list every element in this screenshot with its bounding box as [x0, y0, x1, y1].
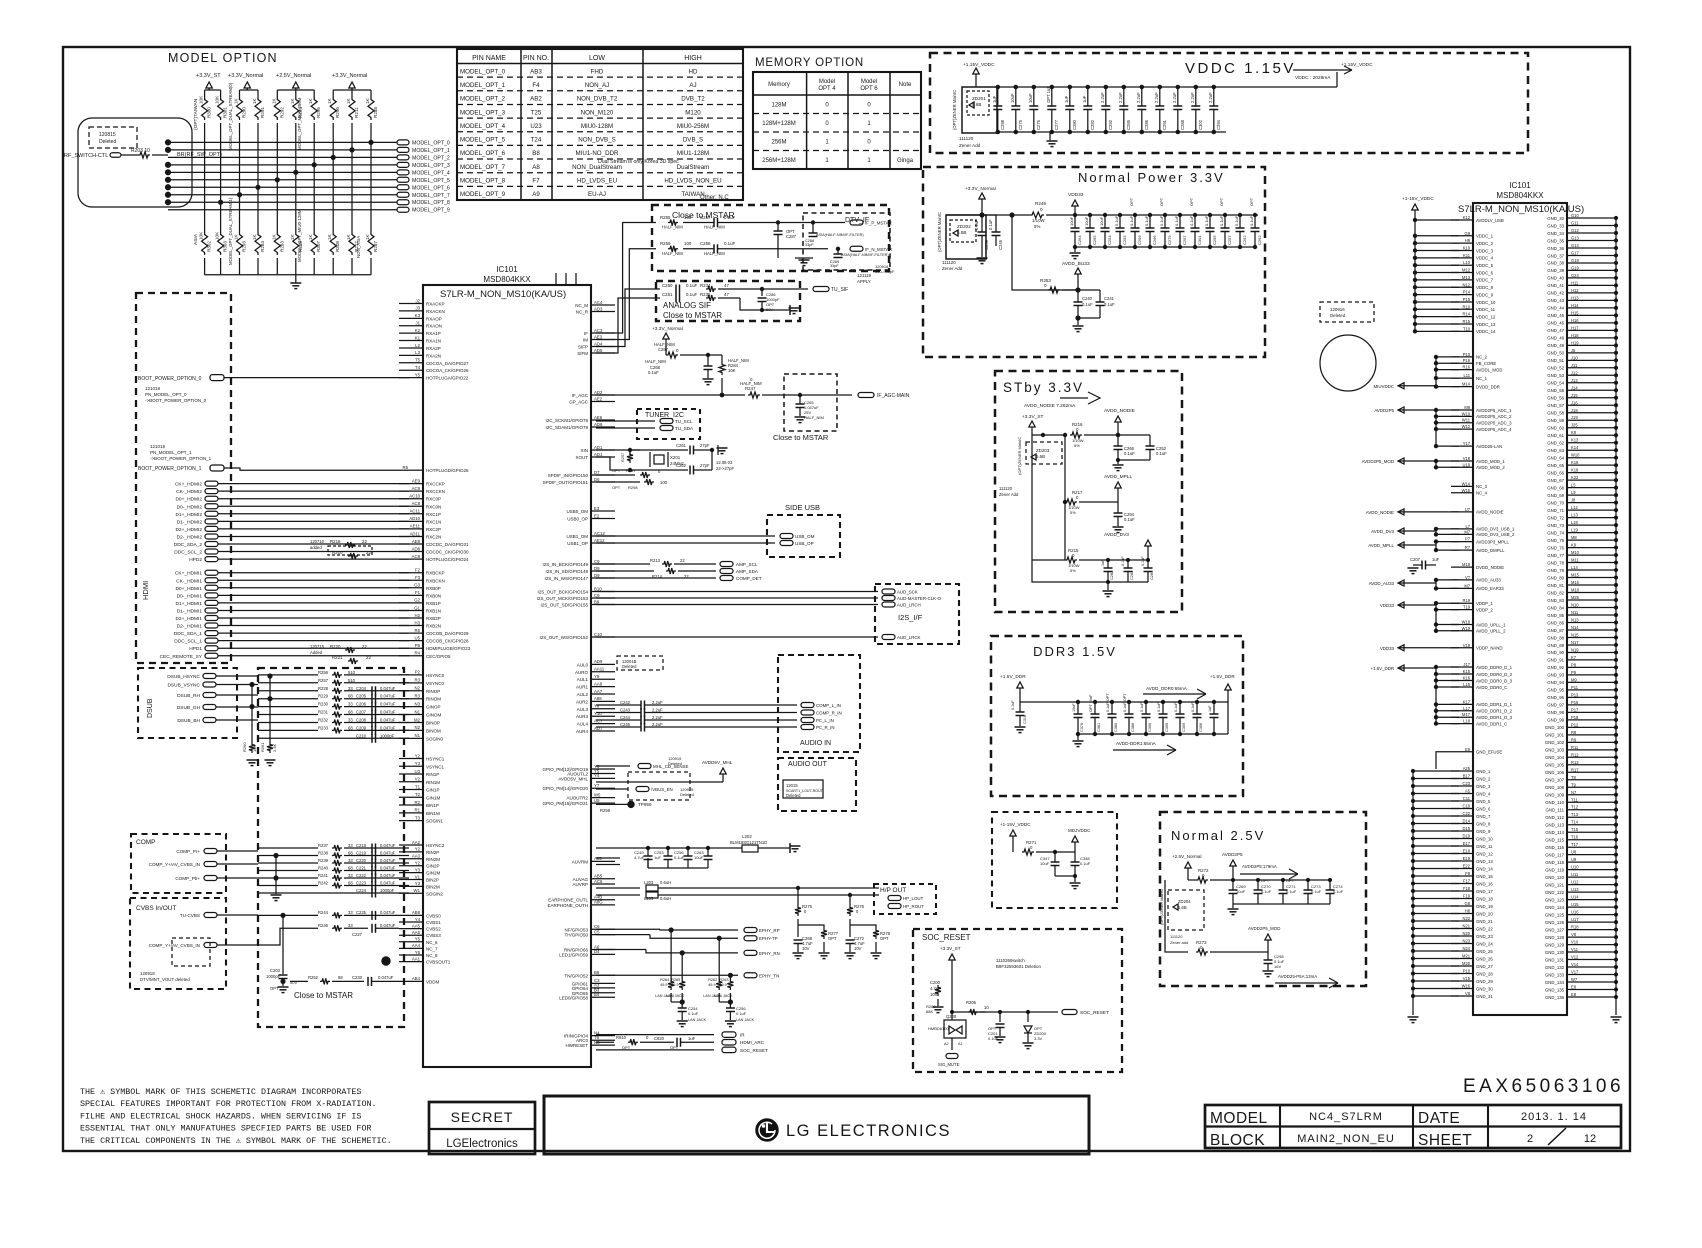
- svg-text:GND_1: GND_1: [1476, 769, 1491, 774]
- svg-text:MODEL_OPT_7: MODEL_OPT_7: [460, 164, 506, 171]
- svg-text:C292: C292: [1108, 119, 1113, 130]
- svg-text:OPT 10uF: OPT 10uF: [1089, 694, 1093, 712]
- svg-text:AVDD_DV3_USB_2: AVDD_DV3_USB_2: [1476, 532, 1515, 537]
- svg-text:GND_40: GND_40: [1547, 276, 1564, 281]
- svg-text:W19: W19: [1462, 626, 1471, 631]
- svg-text:HDMIPLUGB/GPIO23: HDMIPLUGB/GPIO23: [426, 646, 471, 651]
- svg-text:22: 22: [366, 550, 371, 555]
- svg-text:VDDC_9: VDDC_9: [1476, 292, 1494, 297]
- svg-text:P17: P17: [1571, 707, 1579, 712]
- svg-text:L18: L18: [1463, 719, 1471, 724]
- svg-text:V18: V18: [1463, 456, 1471, 461]
- svg-text:GND_38: GND_38: [1547, 261, 1564, 266]
- svg-text:H17: H17: [1571, 325, 1579, 330]
- svg-text:R19: R19: [1462, 598, 1470, 603]
- svg-text:RXC2P: RXC2P: [426, 527, 441, 532]
- svg-text:C277: C277: [1054, 119, 1059, 130]
- box Normal 2.5V: [1160, 812, 1366, 986]
- svg-text:(OPT)TAIWAN: (OPT)TAIWAN: [193, 98, 199, 130]
- svg-text:RXB0N: RXB0N: [426, 593, 441, 598]
- svg-text:0.1uF: 0.1uF: [648, 370, 659, 375]
- svg-text:NC4_S7LRM: NC4_S7LRM: [1309, 1111, 1383, 1123]
- svg-text:RXCCKP: RXCCKP: [426, 482, 445, 487]
- svg-text:DSUB_GH: DSUB_GH: [177, 705, 201, 711]
- svg-text:AE11: AE11: [410, 524, 421, 529]
- svg-text:W10: W10: [1571, 453, 1580, 458]
- svg-text:GND_80: GND_80: [1547, 575, 1564, 580]
- svg-text:R296: R296: [335, 107, 340, 118]
- svg-text:4.7uF: 4.7uF: [634, 855, 645, 860]
- svg-text:T10: T10: [1463, 326, 1471, 331]
- svg-text:AC7: AC7: [594, 718, 603, 723]
- svg-text:0: 0: [1076, 495, 1079, 500]
- svg-text:GND_130: GND_130: [1545, 950, 1565, 955]
- svg-text:R259: R259: [660, 241, 671, 246]
- svg-text:C243: C243: [620, 708, 631, 713]
- svg-text:C266: C266: [1152, 235, 1157, 245]
- svg-text:R298: R298: [628, 485, 638, 490]
- svg-text:Y6: Y6: [415, 950, 421, 955]
- svg-text:121119: 121119: [857, 273, 872, 278]
- svg-text:P6: P6: [415, 643, 421, 648]
- svg-text:HD_LVDS_NON_EU: HD_LVDS_NON_EU: [664, 178, 721, 185]
- svg-text:J11: J11: [1571, 363, 1578, 368]
- box HP OUT: [874, 884, 936, 914]
- svg-text:22: 22: [366, 655, 371, 660]
- svg-text:0: 0: [867, 102, 871, 108]
- svg-text:N11: N11: [1571, 610, 1579, 615]
- svg-text:C242: C242: [620, 700, 631, 705]
- svg-text:PC_R_IN: PC_R_IN: [816, 725, 835, 730]
- svg-text:GND_50: GND_50: [1547, 351, 1564, 356]
- svg-text:33: 33: [348, 873, 353, 878]
- svg-text:G12: G12: [1571, 228, 1579, 233]
- svg-text:H8: H8: [1465, 909, 1471, 914]
- svg-text:5%: 5%: [1070, 568, 1076, 573]
- svg-text:XIN: XIN: [580, 448, 588, 453]
- svg-text:L19: L19: [1571, 528, 1579, 533]
- svg-text:5%: 5%: [1074, 443, 1080, 448]
- svg-text:AD5: AD5: [594, 348, 603, 353]
- svg-text:10uF: 10uF: [1099, 216, 1104, 226]
- svg-text:J1: J1: [415, 321, 420, 326]
- box ANALOG SIF: [656, 281, 800, 321]
- box AUDIO OUT: [778, 758, 856, 811]
- svg-text:AVDDLV_USB: AVDDLV_USB: [1476, 218, 1504, 223]
- svg-text:R3: R3: [415, 693, 421, 698]
- svg-text:I2S_IN_WS/GPIO147: I2S_IN_WS/GPIO147: [544, 576, 588, 581]
- svg-text:M10: M10: [1571, 550, 1580, 555]
- svg-text:VDDC_4: VDDC_4: [1476, 256, 1494, 261]
- svg-text:BINOP: BINOP: [426, 720, 440, 725]
- svg-text:A2: A2: [944, 1042, 949, 1046]
- svg-text:R302: R302: [207, 241, 212, 252]
- svg-text:RXCCKN: RXCCKN: [426, 489, 445, 494]
- svg-text:10K: 10K: [728, 368, 736, 373]
- svg-text:68: 68: [348, 866, 353, 871]
- svg-text:HP_ROUT: HP_ROUT: [903, 904, 924, 909]
- svg-text:AA1: AA1: [412, 956, 421, 961]
- svg-text:CDCOA_DA/GPIO27: CDCOA_DA/GPIO27: [426, 361, 469, 366]
- svg-text:VDDC_7: VDDC_7: [1476, 278, 1494, 283]
- svg-text:RXC0P: RXC0P: [426, 497, 441, 502]
- svg-text:IF_N_MSTAR: IF_N_MSTAR: [865, 247, 892, 252]
- svg-text:AUR4: AUR4: [576, 729, 589, 734]
- svg-text:C251: C251: [662, 292, 673, 297]
- svg-text:H14: H14: [1571, 303, 1579, 308]
- svg-text:ZD201: ZD201: [972, 96, 986, 101]
- svg-text:GND_117: GND_117: [1545, 852, 1564, 857]
- svg-text:AVDD_DDR0_D_1: AVDD_DDR0_D_1: [1476, 665, 1513, 670]
- svg-text:10uF: 10uF: [1084, 216, 1089, 226]
- svg-text:120918: 120918: [140, 971, 155, 976]
- svg-text:G19: G19: [1571, 265, 1579, 270]
- svg-text:B10: B10: [594, 586, 602, 591]
- svg-text:AVDD2P5:179mA: AVDD2P5:179mA: [1242, 864, 1277, 869]
- wire dsub bus2: [269, 676, 271, 742]
- svg-text:HPD1: HPD1: [189, 646, 202, 652]
- svg-text:+1-15V_VDDC: +1-15V_VDDC: [1402, 196, 1434, 202]
- svg-text:MEMORY OPTION: MEMORY OPTION: [755, 57, 864, 69]
- svg-text:BINOM: BINOM: [426, 728, 441, 733]
- svg-text:AVDD_MOD_2: AVDD_MOD_2: [1476, 465, 1505, 470]
- svg-text:RXACKN: RXACKN: [426, 309, 445, 314]
- svg-text:MIU0-128M: MIU0-128M: [581, 123, 613, 130]
- svg-text:N2: N2: [415, 686, 421, 691]
- junction dot T1: [382, 957, 390, 965]
- svg-text:OPT: OPT: [1219, 197, 1224, 206]
- svg-text:R244: R244: [318, 910, 329, 915]
- svg-text:G8: G8: [1465, 901, 1471, 906]
- svg-text:GND_29: GND_29: [1476, 979, 1493, 984]
- svg-text:GND_41: GND_41: [1547, 283, 1564, 288]
- svg-text:C207: C207: [356, 710, 367, 715]
- svg-text:HSYNC2: HSYNC2: [426, 843, 445, 848]
- svg-text:+1.15V_VDDC: +1.15V_VDDC: [1341, 62, 1373, 68]
- svg-text:P2: P2: [415, 670, 421, 675]
- svg-text:C257: C257: [700, 215, 711, 220]
- svg-text:W7: W7: [1571, 977, 1578, 982]
- svg-text:1000pF: 1000pF: [266, 974, 281, 979]
- svg-text:C275: C275: [1018, 119, 1023, 130]
- zener ZD201: [962, 87, 997, 133]
- svg-text:V19: V19: [1463, 643, 1471, 648]
- svg-text:C259: C259: [984, 239, 989, 250]
- svg-text:VDDM: VDDM: [426, 979, 440, 984]
- svg-text:R7: R7: [1465, 545, 1471, 550]
- ic IC101 body: [423, 285, 591, 1067]
- svg-text:1uF: 1uF: [1208, 705, 1212, 712]
- svg-text:C282: C282: [1110, 571, 1114, 580]
- capacitor C265: [798, 393, 801, 396]
- svg-text:120710: 120710: [310, 539, 325, 544]
- svg-text:IF: IF: [584, 331, 588, 336]
- svg-text:T1: T1: [415, 784, 421, 789]
- svg-text:GND_111: GND_111: [1546, 808, 1565, 813]
- svg-text:PC_L_IN: PC_L_IN: [816, 718, 834, 723]
- svg-text:AC12: AC12: [594, 531, 605, 536]
- svg-text:GND_79: GND_79: [1547, 568, 1564, 573]
- svg-text:P14: P14: [1463, 290, 1471, 295]
- svg-text:LGElectronics: LGElectronics: [446, 1138, 518, 1150]
- svg-text:1uF: 1uF: [688, 1036, 696, 1041]
- svg-text:DSUB_VSYNC: DSUB_VSYNC: [167, 683, 200, 689]
- svg-text:AC8: AC8: [412, 554, 421, 559]
- ground NP2: [1077, 318, 1079, 325]
- svg-text:G18: G18: [1571, 258, 1579, 263]
- svg-text:COMP_DET: COMP_DET: [736, 576, 762, 581]
- svg-text:VDDC : 2028mA: VDDC : 2028mA: [1295, 75, 1331, 81]
- svg-text:C301: C301: [1197, 235, 1202, 245]
- svg-text:C262: C262: [676, 463, 687, 468]
- svg-text:OPT: OPT: [1159, 197, 1164, 206]
- svg-text:R238: R238: [318, 851, 329, 856]
- svg-text:0.1uF: 0.1uF: [1140, 702, 1144, 712]
- svg-text:GND_39: GND_39: [1547, 268, 1564, 273]
- svg-text:GND_88: GND_88: [1547, 635, 1564, 640]
- svg-text:L18: L18: [1571, 520, 1579, 525]
- svg-text:AJ: AJ: [689, 82, 696, 89]
- svg-text:LED0/GPIO58: LED0/GPIO58: [559, 995, 588, 1000]
- svg-text:AA4: AA4: [412, 943, 421, 948]
- svg-text:GND_64: GND_64: [1547, 455, 1564, 460]
- svg-text:R287: R287: [626, 468, 636, 473]
- svg-text:C200: C200: [930, 980, 941, 985]
- svg-text:GND_63: GND_63: [1547, 448, 1564, 453]
- box COMP: [131, 834, 226, 893]
- svg-text:0.1uF: 0.1uF: [736, 1011, 747, 1016]
- svg-text:MODEL_OPT_2: MODEL_OPT_2: [412, 155, 450, 161]
- svg-text:10K: 10K: [215, 231, 220, 240]
- svg-text:H19: H19: [1571, 340, 1579, 345]
- svg-text:TU_SCL: TU_SCL: [675, 419, 693, 424]
- svg-text:M7: M7: [1464, 583, 1470, 588]
- svg-text:GND_135: GND_135: [1545, 987, 1565, 992]
- svg-text:SIFM: SIFM: [577, 351, 588, 356]
- svg-text:L5: L5: [1571, 483, 1576, 488]
- svg-text:AUVRM: AUVRM: [572, 859, 589, 864]
- svg-text:R910: R910: [616, 1035, 627, 1040]
- svg-text:N17: N17: [1571, 640, 1579, 645]
- wires MODEL_OPT_0-9: [168, 141, 397, 143]
- svg-text:0.1uF: 0.1uF: [1124, 517, 1135, 522]
- svg-text:10V: 10V: [802, 946, 810, 951]
- svg-text:1K: 1K: [234, 97, 239, 104]
- svg-text:10K: 10K: [199, 95, 204, 104]
- svg-text:ZD203: ZD203: [1036, 448, 1050, 453]
- svg-text:10uF: 10uF: [1028, 93, 1033, 103]
- svg-text:Close to MSTAR: Close to MSTAR: [663, 311, 722, 320]
- svg-text:Deleted: Deleted: [1330, 313, 1346, 318]
- svg-text:22->27pF: 22->27pF: [716, 466, 734, 471]
- svg-text:C209: C209: [356, 725, 367, 730]
- svg-text:AVDD_NODIE 7.262mA: AVDD_NODIE 7.262mA: [1024, 403, 1076, 409]
- svg-text:DATE: DATE: [1418, 1110, 1460, 1127]
- svg-text:R246: R246: [318, 923, 329, 928]
- svg-text:K13: K13: [1571, 438, 1579, 443]
- svg-text:P13: P13: [1571, 692, 1579, 697]
- svg-text:RIN1P: RIN1P: [426, 772, 439, 777]
- box TUNER_I2C: [637, 409, 700, 439]
- svg-text:B8: B8: [532, 150, 540, 157]
- svg-text:Y5: Y5: [415, 937, 421, 942]
- svg-text:A8: A8: [532, 164, 540, 171]
- svg-text:AVDD2P5_ADC_2: AVDD2P5_ADC_2: [1476, 414, 1512, 419]
- svg-text:NON_AJ: NON_AJ: [585, 82, 609, 89]
- svg-text:W10: W10: [1462, 411, 1471, 416]
- svg-text:SIG_MUTE: SIG_MUTE: [938, 1062, 960, 1067]
- svg-text:P12: P12: [1571, 722, 1579, 727]
- svg-text:USB1_OP: USB1_OP: [567, 541, 588, 546]
- svg-text:C11: C11: [1463, 796, 1471, 801]
- svg-text:AC6: AC6: [594, 879, 603, 884]
- svg-text:OPT: OPT: [828, 936, 837, 941]
- svg-text:GND_116: GND_116: [1545, 845, 1564, 850]
- svg-text:10K: 10K: [252, 745, 257, 752]
- svg-text:K3: K3: [415, 313, 421, 318]
- svg-text:I2S_IN_BCK/GPIO149: I2S_IN_BCK/GPIO149: [542, 562, 588, 567]
- svg-text:OPT 4: OPT 4: [818, 86, 836, 92]
- svg-text:U5: U5: [415, 635, 421, 640]
- svg-text:H2: H2: [415, 613, 421, 618]
- svg-text:V17: V17: [1571, 970, 1579, 975]
- svg-text:C244: C244: [620, 715, 631, 720]
- svg-text:FHD: FHD: [591, 68, 604, 75]
- svg-text:C283: C283: [1130, 571, 1134, 580]
- svg-text:M11: M11: [1571, 558, 1579, 563]
- svg-text:GIN2P: GIN2P: [426, 864, 440, 869]
- svg-text:R17: R17: [1571, 767, 1579, 772]
- svg-text:GND_33: GND_33: [1547, 223, 1564, 228]
- svg-text:AVDD_AU33: AVDD_AU33: [1476, 578, 1501, 583]
- svg-text:C245: C245: [620, 722, 631, 727]
- svg-text:M25: M25: [1571, 595, 1580, 600]
- svg-text:GND_95: GND_95: [1547, 688, 1564, 693]
- svg-text:LED1/GPIO59: LED1/GPIO59: [559, 952, 588, 957]
- svg-text:V8: V8: [1465, 991, 1471, 996]
- svg-text:AC11: AC11: [410, 509, 421, 514]
- svg-text:K14: K14: [1571, 445, 1579, 450]
- svg-text:AD11: AD11: [410, 531, 421, 536]
- svg-text:HPD2: HPD2: [189, 557, 202, 563]
- svg-text:BLOCK: BLOCK: [1210, 1132, 1265, 1149]
- svg-text:Y2: Y2: [415, 861, 421, 866]
- svg-text:33: 33: [348, 718, 353, 723]
- svg-text:MIU1-128M: MIU1-128M: [677, 150, 709, 157]
- svg-text:GND_78: GND_78: [1547, 560, 1564, 565]
- svg-text:GND_106: GND_106: [1545, 770, 1565, 775]
- svg-text:VDDC_10: VDDC_10: [1476, 300, 1496, 305]
- svg-text:AVDD2P5: AVDD2P5: [1374, 408, 1394, 413]
- svg-text:RXAOP: RXAOP: [426, 316, 442, 321]
- svg-text:T9: T9: [1571, 782, 1577, 787]
- svg-text:TU_SIF: TU_SIF: [831, 287, 848, 293]
- svg-text:MODEL: MODEL: [1210, 1110, 1268, 1127]
- svg-text:VDD33: VDD33: [1380, 603, 1395, 608]
- svg-text:H15: H15: [1571, 310, 1579, 315]
- svg-text:HALF_NIM: HALF_NIM: [662, 225, 683, 230]
- dsub RC network: [258, 674, 318, 676]
- wire NP rail: [946, 214, 1030, 216]
- svg-text:GND_37: GND_37: [1547, 253, 1564, 258]
- svg-text:L2: L2: [415, 343, 420, 348]
- svg-text:Y10: Y10: [594, 711, 602, 716]
- svg-text:J18: J18: [1571, 408, 1578, 413]
- svg-text:AVDD_DDR1_D_2: AVDD_DDR1_D_2: [1476, 709, 1513, 714]
- svg-text:DDC_SCL_2: DDC_SCL_2: [174, 550, 202, 556]
- svg-text:N24: N24: [1462, 946, 1470, 951]
- svg-text:RXBCKN: RXBCKN: [426, 578, 445, 583]
- svg-text:GND_46: GND_46: [1547, 321, 1564, 326]
- svg-text:HDMI_ARC: HDMI_ARC: [740, 1040, 765, 1045]
- svg-text:R213: R213: [650, 558, 661, 563]
- svg-text:Zener Add: Zener Add: [942, 266, 963, 271]
- ephy wires: [596, 928, 660, 930]
- ground comp: [275, 856, 277, 895]
- svg-text:C286: C286: [1144, 119, 1149, 130]
- svg-text:N1: N1: [415, 733, 421, 738]
- resistor R260: [249, 742, 255, 753]
- svg-text:GND_93: GND_93: [1547, 673, 1564, 678]
- svg-text:+2.5V_Normal: +2.5V_Normal: [1172, 854, 1202, 859]
- spdif resistors: [596, 474, 635, 476]
- svg-text:VDDP_NAND: VDDP_NAND: [1476, 646, 1503, 651]
- svg-text:V1: V1: [415, 874, 421, 879]
- svg-text:VDDC_1: VDDC_1: [1476, 234, 1494, 239]
- svg-text:C222: C222: [356, 873, 367, 878]
- svg-text:0: 0: [676, 348, 679, 353]
- svg-text:NC_2: NC_2: [1476, 355, 1488, 360]
- svg-text:HOTPLUGA/GPIO22: HOTPLUGA/GPIO22: [426, 376, 469, 381]
- svg-text:T24: T24: [531, 137, 542, 144]
- svg-text:RXC1N: RXC1N: [426, 519, 441, 524]
- svg-text:+3.3V_Normal: +3.3V_Normal: [652, 326, 683, 332]
- svg-text:10uF: 10uF: [1236, 889, 1246, 894]
- svg-text:GND_91: GND_91: [1547, 658, 1564, 663]
- svg-text:E22: E22: [1463, 864, 1471, 869]
- svg-text:C316: C316: [1023, 715, 1027, 724]
- svg-text:VDDC_13: VDDC_13: [1476, 322, 1496, 327]
- svg-text:R297: R297: [621, 453, 625, 462]
- svg-text:C256: C256: [1137, 235, 1142, 245]
- svg-text:R4: R4: [415, 651, 421, 656]
- svg-text:U8: U8: [1571, 850, 1577, 855]
- svg-text:N2: N2: [415, 725, 421, 730]
- svg-text:1K: 1K: [327, 97, 332, 104]
- svg-text:AD1: AD1: [594, 452, 603, 457]
- svg-text:GND_68: GND_68: [1547, 485, 1564, 490]
- svg-text:C291: C291: [1162, 119, 1167, 130]
- svg-text:MIU0-256M: MIU0-256M: [677, 123, 709, 130]
- svg-text:0: 0: [856, 909, 859, 914]
- svg-text:AA2: AA2: [412, 840, 421, 845]
- svg-text:GND_127: GND_127: [1545, 927, 1565, 932]
- svg-text:added: added: [310, 545, 322, 550]
- svg-text:AUL2: AUL2: [577, 692, 589, 697]
- capacitor C240: [1077, 290, 1079, 302]
- svg-text:J17: J17: [1463, 662, 1470, 667]
- svg-text:AUD_SCK: AUD_SCK: [897, 590, 918, 595]
- svg-text:2.2uF: 2.2uF: [1208, 92, 1213, 103]
- svg-text:HIGH: HIGH: [684, 55, 702, 62]
- svg-text:GND_17: GND_17: [1476, 889, 1493, 894]
- svg-text:12: 12: [1584, 1133, 1596, 1145]
- svg-text:AVDD_DDR0:65mA: AVDD_DDR0:65mA: [1146, 686, 1188, 691]
- svg-text:N1: N1: [415, 709, 421, 714]
- svg-text:C258: C258: [700, 241, 711, 246]
- svg-text:0.1uF OPT: 0.1uF OPT: [1123, 693, 1127, 712]
- svg-text:GND_112: GND_112: [1545, 815, 1564, 820]
